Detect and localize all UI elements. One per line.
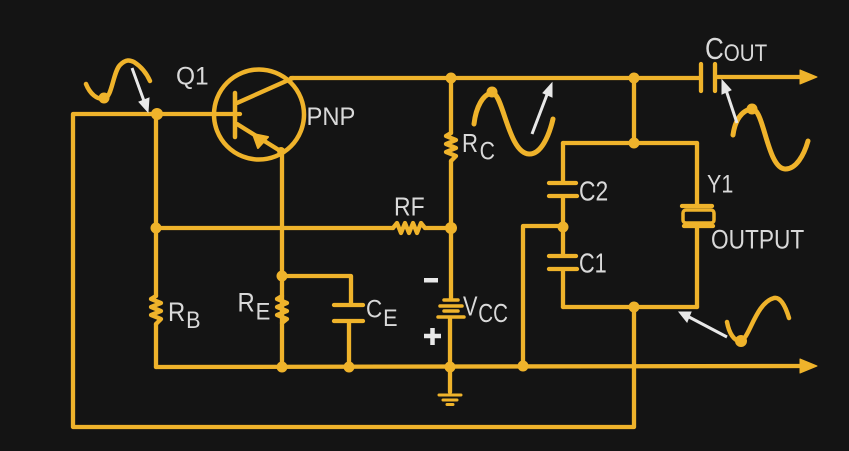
wire: RC branch vertical from top rail to RF node [449,78,453,228]
wire: base node vertical from base wire down through RB to bottom rail [154,114,158,367]
resistor RF zigzag [393,223,425,233]
wire: Y1 branch vertical top lead [695,143,699,205]
wire: bottom rail arrowhead [800,359,817,373]
svg-text:C2: C2 [579,177,608,207]
wire: ground stem below bottom rail [448,367,452,392]
svg-text:RC: RC [462,129,495,165]
svg-text:OUTPUT: OUTPUT [711,225,804,255]
wire: top rail from Q1 collector to COUT left plate [291,76,700,80]
wire: RF feedback wire from base node to RC/VCC node [156,226,451,230]
junction: RE bottom on bottom rail [277,362,288,373]
junction: tank loop top at x=634 [629,138,640,149]
node dot on input sine trough [99,93,110,104]
svg-text:RF: RF [394,193,425,221]
wire: Q1 emitter vertical down to bottom rail [280,152,284,367]
capacitor CE plates [334,305,363,321]
capacitor C1 plates [549,256,577,269]
wire: top rail from COUT right plate to output arrow [717,75,802,79]
wire: CE bottom to bottom rail [347,322,351,367]
sine wave icon at input (top-left) [86,60,150,99]
junction: RC top at rail [446,73,457,84]
junction: tank loop bottom at x=634 [629,302,640,313]
capacitor C2 plates [549,183,577,196]
wire: output arrowhead on top rail [800,70,817,84]
junction: C1/C2 mid node [558,222,569,233]
svg-text:RE: RE [238,288,271,324]
wire: VCC branch from RF node to battery and battery to bottom rail [450,228,451,367]
capacitor COUT plates [701,64,715,91]
svg-text:C1: C1 [579,249,607,279]
svg-text:COUT: COUT [705,32,767,67]
wire: tank loop bottom run [563,305,697,309]
sine wave icon at output (after COUT) [733,109,808,169]
node dot on feedback sine trough [735,335,747,347]
battery plus sign [424,328,441,345]
battery VCC plates [438,300,464,317]
junction: battery/ground on bottom rail [445,362,456,373]
svg-text:Y1: Y1 [707,170,733,198]
arrow: input sine to base node [132,68,149,112]
battery minus sign [424,278,438,283]
wire: C1 bottom lead [561,271,565,307]
svg-text:RB: RB [168,298,201,333]
resistor RE zigzag [277,296,287,323]
junction: emitter at circle edge [277,147,285,155]
sine wave icon at RC collector node [474,93,553,154]
ground symbol [439,395,461,405]
sine wave icon at feedback (bottom-right) [727,298,789,341]
node dot on collector sine peak [487,87,498,98]
junction: tank branch at top rail [629,73,640,84]
junction: RF left at base branch [151,223,162,234]
resistor RC zigzag [446,133,456,161]
arrow: collector node to sine [532,83,552,134]
transistor Q1 [214,70,304,160]
junction: emitter / CE node [277,271,288,282]
svg-text:Q1: Q1 [176,63,209,90]
wire: emitter to CE top connection [282,276,351,303]
svg-text:PNP: PNP [307,103,356,131]
wire: C2 branch vertical (top plate lead) [561,143,565,181]
wire: Y1 bottom lead [695,227,699,307]
resistor RB zigzag [151,296,161,324]
wire: left feedback loop (left vertical, bottom run, rise to C1/Y1 bottom node) [73,114,634,427]
wire: vertical from top rail down to tank loop top [632,78,636,143]
wire: C2 to C1 link [561,198,565,254]
junction: x=523 branch on bottom rail [518,361,529,372]
crystal Y1 [682,206,714,226]
wire: mid C1/C2 node to bottom rail (x=523 branch) [523,226,563,366]
junction: RF right / RC / VCC node [445,222,457,234]
svg-text:VCC: VCC [463,292,508,327]
junction: base node (input) [151,108,163,120]
wire: tank loop top run [563,141,697,145]
node dot on output sine peak [747,104,758,115]
wire: bottom rail from RB corner to output arrow [156,366,802,367]
svg-text:CE: CE [366,295,398,331]
arrow: feedback sine to tank bottom [679,312,727,337]
arrow: output sine to top rail [722,80,737,123]
junction: CE bottom on bottom rail [344,362,355,373]
